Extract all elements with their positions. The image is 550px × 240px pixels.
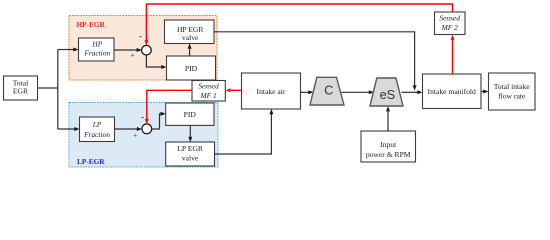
block Intake air [242, 73, 301, 109]
block Sensed MF 2 [435, 12, 466, 35]
svg-text:Fraction: Fraction [83, 49, 110, 58]
block PID (LP) [166, 103, 214, 125]
LP-EGR dashed region [69, 103, 218, 168]
wire compressor to eS [342, 91, 370, 93]
svg-text:flow rate: flow rate [498, 92, 526, 101]
svg-text:Total intake: Total intake [494, 82, 531, 91]
svg-text:MF 2: MF 2 [441, 23, 459, 32]
wire Input power to eS [387, 111, 389, 131]
engine eS trapezoid [370, 78, 403, 106]
svg-text:valve: valve [182, 33, 199, 42]
svg-text:-: - [141, 112, 144, 122]
wire HP EGR valve to engine junction [214, 32, 415, 86]
wire Intake manifold to Total intake [481, 91, 484, 93]
wire LP PID to LP EGR valve [189, 125, 191, 136]
block Intake manifold [423, 74, 482, 109]
svg-text:Sensed: Sensed [439, 14, 460, 23]
wire HP sum to PID [146, 55, 161, 67]
red wire Intake air to Sensed MF 1 [231, 89, 242, 91]
summing junction LP (U-sum2) [142, 124, 152, 134]
block HP EGR valve [165, 20, 215, 44]
svg-text:MF 1: MF 1 [199, 91, 216, 100]
svg-text:HP: HP [91, 40, 102, 49]
wire LP Fraction to sum [115, 128, 138, 130]
block PID (HP) [167, 56, 216, 80]
red wire Intake manifold to Sensed MF 2 [452, 40, 454, 75]
svg-text:PID: PID [185, 64, 198, 73]
block LP EGR valve [166, 142, 215, 166]
compressor C trapezoid [310, 77, 344, 105]
wire HP PID to HP EGR valve [189, 49, 191, 56]
svg-text:eS: eS [380, 87, 396, 102]
svg-text:+: + [133, 130, 137, 139]
wire HP Fraction to sum [114, 49, 137, 51]
wire Total EGR to branch tee [38, 50, 58, 130]
wire eS to Intake manifold [402, 91, 418, 93]
svg-text:Intake air: Intake air [257, 87, 286, 96]
block HP Fraction [79, 38, 115, 61]
summing junction HP (U-sum1) [142, 45, 152, 55]
svg-text:valve: valve [182, 153, 199, 162]
wire LP EGR valve to Intake air [215, 114, 272, 154]
svg-text:LP-EGR: LP-EGR [77, 157, 105, 166]
svg-text:Sensed: Sensed [198, 82, 219, 91]
block Sensed MF 1 [192, 81, 225, 102]
block LP Fraction [80, 117, 115, 142]
svg-text:PID: PID [184, 110, 197, 119]
svg-text:C: C [324, 84, 333, 98]
svg-text:LP EGR: LP EGR [177, 144, 204, 153]
wire branch to LP Fraction [58, 128, 75, 130]
HP-EGR dashed region [69, 16, 217, 81]
block Total EGR [4, 76, 38, 100]
svg-text:power & RPM: power & RPM [366, 150, 411, 159]
wire LP sum to PID [152, 114, 161, 129]
red wire Sensed MF 2 to HP sum [146, 4, 452, 41]
wire Intake air to compressor [301, 91, 309, 93]
svg-text:EGR: EGR [13, 87, 29, 96]
block Input power & RPM [361, 131, 416, 162]
svg-text:Fraction: Fraction [83, 130, 110, 139]
svg-text:Input: Input [380, 140, 397, 149]
svg-text:HP-EGR: HP-EGR [77, 20, 106, 29]
svg-text:-: - [139, 31, 142, 41]
svg-text:Intake manifold: Intake manifold [428, 87, 476, 96]
svg-text:+: + [130, 50, 134, 59]
block Total intake flow rate [489, 73, 536, 110]
wire branch to HP Fraction [58, 49, 74, 51]
red wire Sensed MF 1 to LP sum [147, 90, 192, 119]
svg-text:LP: LP [92, 120, 102, 129]
